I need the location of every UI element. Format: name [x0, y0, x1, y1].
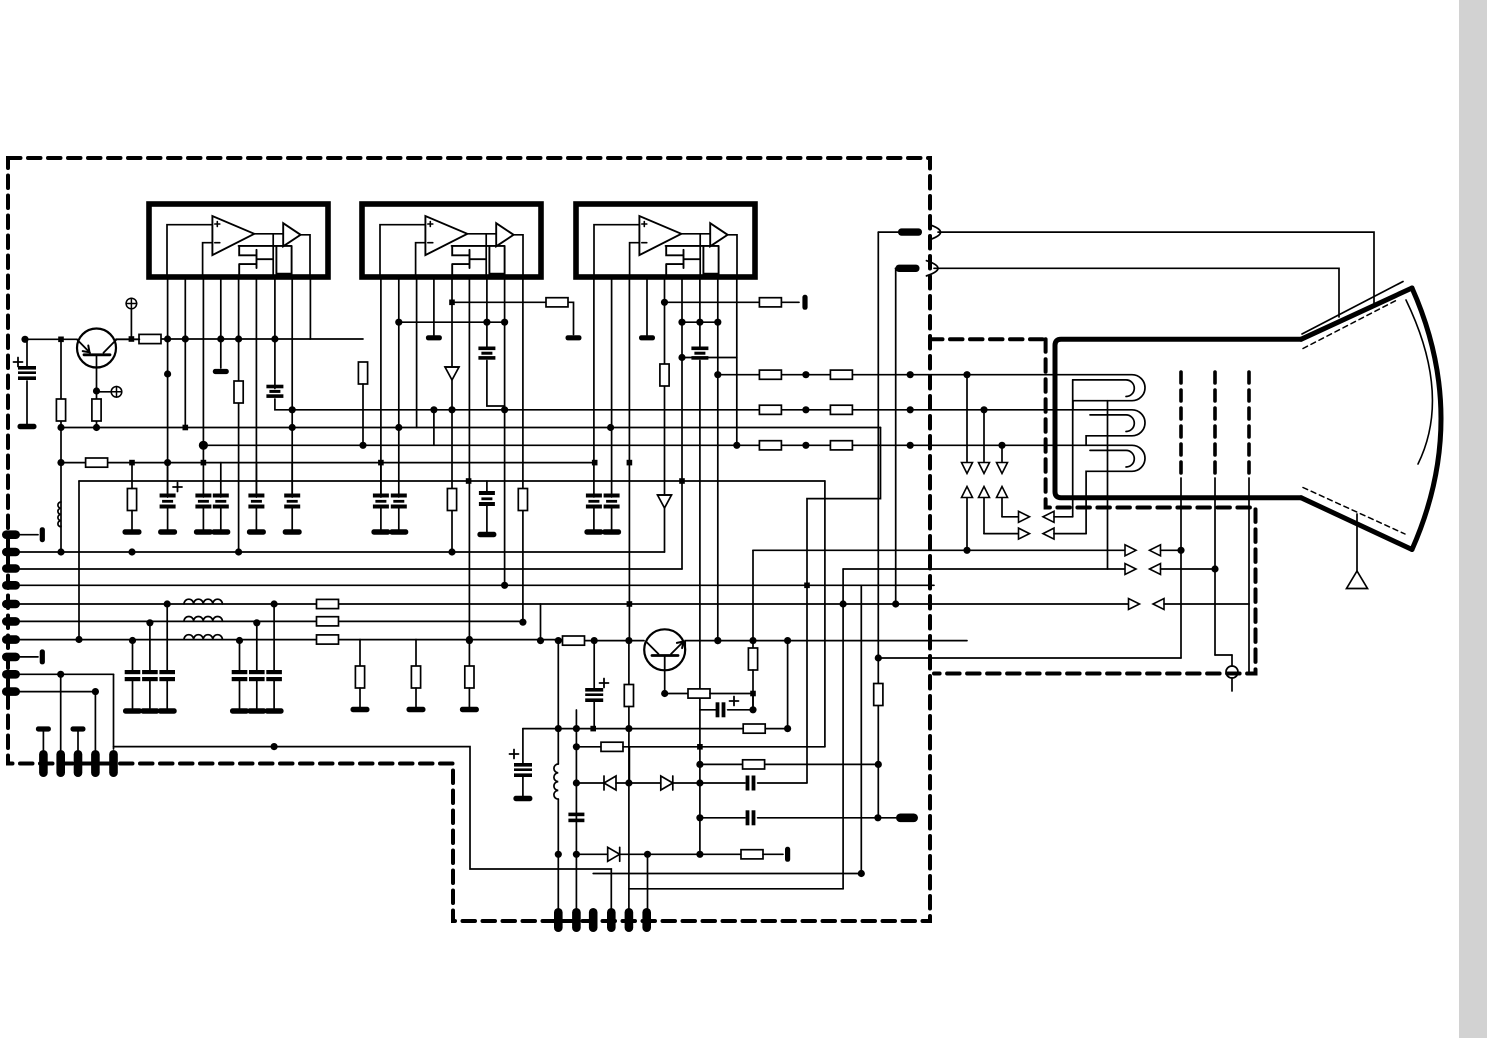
wire P9 drop to pill5	[113, 674, 115, 749]
junction U2 p5 feed	[449, 300, 455, 306]
diode D5	[658, 495, 672, 508]
wire cap C3 top lead	[202, 463, 204, 497]
wire P2 net	[19, 551, 665, 553]
wire diode row seg2	[616, 782, 661, 784]
junction x558/diode row B	[555, 851, 562, 858]
junction R22/P2 net	[448, 548, 455, 555]
CRT tube outline	[1055, 339, 1301, 497]
junction cap row/x878	[874, 814, 881, 821]
wire diode row seg3	[673, 782, 745, 784]
connector pin P2	[2, 548, 20, 557]
junction row D/gun2	[1211, 565, 1218, 572]
wire U3 pin3 drop	[628, 277, 630, 641]
capacitor C58	[746, 776, 756, 791]
connector arrow G up	[979, 487, 990, 498]
ground cluster B x239	[230, 708, 249, 713]
capacitor cluster B x256	[249, 670, 265, 681]
wire U2 pin3 drop	[416, 277, 418, 428]
wire U1 pin5 drop	[238, 277, 240, 552]
junction L1 end	[57, 548, 64, 555]
resistor R45	[830, 405, 852, 414]
wire cluster A bot x132	[132, 681, 134, 708]
wire cap C2 top lead	[167, 463, 169, 497]
op-amp IC module U3 thick box	[576, 204, 755, 277]
junction U1 p1	[164, 370, 171, 377]
capacitor cluster B x274	[266, 670, 282, 681]
resistor R11	[355, 666, 364, 688]
capacitor C7	[373, 494, 389, 509]
ground C4	[211, 529, 230, 534]
connector arrow C in	[1150, 545, 1161, 556]
junction y764 right	[875, 761, 882, 768]
wire bus C y462	[61, 462, 595, 464]
wire diode row B seg2	[620, 853, 741, 855]
junction P7 a	[466, 636, 473, 643]
wire P4 net	[19, 584, 934, 586]
junction P5/x895	[892, 600, 899, 607]
junction bus D b	[679, 478, 685, 484]
inductor L5	[554, 764, 558, 799]
resistor R60	[874, 684, 883, 706]
wire y747 row left	[576, 746, 601, 748]
wire B60 riser	[60, 674, 62, 750]
junction bottom loop	[271, 743, 278, 750]
connector arrow R up	[962, 487, 973, 498]
junction P2 a	[128, 548, 135, 555]
junction U3 p6 rail	[678, 319, 685, 326]
wire U1 output to buffer	[254, 233, 283, 235]
ground battery	[18, 424, 37, 429]
wire gun1 solid	[1180, 478, 1182, 550]
capacitor C52 electrolytic	[716, 702, 726, 717]
resistor R51	[688, 689, 710, 698]
junction x61/bus A	[57, 424, 64, 431]
wire cap C6 bottom lead	[291, 506, 293, 531]
wire C50 bottom lead	[593, 702, 595, 729]
wire cap C6 top lead	[291, 463, 293, 497]
junction U2 p6 end	[466, 637, 473, 644]
junction P5 branch/Q2 base	[537, 637, 544, 644]
wire x878 long vertical	[877, 232, 879, 818]
wire gun1 lower	[1180, 550, 1182, 658]
wire cap C7 top lead	[380, 463, 382, 497]
connector arrow D in	[1150, 564, 1161, 575]
wire cap C3 bottom lead	[202, 506, 204, 531]
capacitor C4	[213, 494, 229, 509]
ground C6	[283, 529, 302, 534]
ground cluster B x256	[247, 708, 266, 713]
junction RGB2 b	[907, 406, 914, 413]
wire cluster A lead x132	[132, 641, 134, 671]
wire C52 right lead	[728, 709, 753, 711]
connector plug J2	[896, 265, 920, 272]
wire RGB2 line / yoke loop 2	[292, 410, 1145, 446]
resistor R1	[56, 399, 65, 421]
wire y658 row	[878, 657, 1181, 659]
junction p7 end	[696, 851, 703, 858]
diode D7	[604, 776, 616, 790]
connector pin P10	[2, 687, 20, 696]
resistor R2	[92, 399, 101, 421]
wire x895 long vertical	[895, 268, 897, 604]
ground electrode circle	[1226, 666, 1238, 678]
wire U2 pin8 drop	[504, 277, 506, 585]
resistor R4	[127, 489, 136, 511]
wire cap C31 bottom lead	[611, 506, 613, 531]
junction U3 p5 feed	[661, 299, 668, 306]
wire U2 pin6 drop	[468, 277, 470, 641]
resistor R44	[830, 370, 852, 379]
wire x825 riser	[824, 481, 826, 747]
junction U1 p2 bus	[183, 425, 189, 431]
ground C8	[389, 529, 408, 534]
wire cluster B bot x274	[273, 681, 275, 708]
wire RGB1 line / yoke loop 1	[718, 375, 1145, 410]
junction U3 p3/bus C	[627, 460, 633, 466]
wire U2 buffer output	[514, 235, 523, 277]
wire test point TP1 lead	[130, 309, 132, 339]
junction D3/RGB2	[448, 406, 455, 413]
junction U1 p5 end	[235, 548, 242, 555]
wire row B out	[1054, 533, 1086, 535]
wire U3 buffer output	[728, 235, 737, 277]
junction U1 p4 rail	[217, 335, 224, 342]
wire gun2 lower	[1214, 569, 1216, 655]
junction U3 p6 end	[678, 354, 685, 361]
junction bus C end	[592, 460, 598, 466]
connector pin Q611	[607, 908, 616, 932]
wire U1 pin9 drop	[310, 277, 363, 339]
wire cluster A bot x167	[166, 681, 168, 708]
junction P4 drop/pill3 net	[858, 870, 865, 877]
wire battery leads	[26, 339, 28, 424]
wire R51 to C52	[710, 694, 753, 710]
wire U3 pin8 drop	[717, 277, 719, 641]
resistor R14	[234, 381, 243, 403]
wire R13 bot lead	[468, 688, 470, 707]
connector arrow C out	[1125, 545, 1136, 556]
wire x843 riser	[842, 569, 844, 889]
wire R52 to bottom pill	[628, 707, 630, 910]
connector pin P3	[2, 564, 20, 573]
wire U3 output to buffer	[681, 233, 710, 235]
wire row A out	[1054, 516, 1073, 518]
wire Q1 base feed	[25, 338, 77, 340]
wire cap row seg1	[700, 817, 745, 819]
capacitor C59	[746, 810, 756, 825]
wire R56 corner drop	[628, 747, 630, 783]
wire U3 pin5 drop	[664, 277, 666, 552]
junction U1 p3	[201, 460, 207, 466]
junction rail feed	[129, 336, 135, 342]
wire U1 pin3 drop	[202, 277, 204, 463]
junction P9/pill2 riser	[57, 671, 64, 678]
wire Q2 collector	[685, 641, 967, 650]
connector pin Q628	[625, 908, 634, 932]
junction R16/RGB3	[359, 442, 366, 449]
junction U1 p2 rail	[182, 335, 189, 342]
junction cluster B x274	[271, 600, 278, 607]
terminal bar U2 p4	[426, 335, 442, 340]
wire R31 to terminal	[782, 301, 800, 303]
wire cap C9 bottom lead	[486, 506, 488, 532]
junction R2/bus	[93, 424, 100, 431]
capacitor C3	[195, 494, 211, 509]
terminal bar U3 p4	[639, 335, 655, 340]
connector arrow B down	[997, 463, 1008, 474]
ground C31	[602, 529, 621, 534]
wire cap C5 bottom lead	[255, 506, 257, 531]
wire row D out	[1161, 568, 1216, 570]
junction x576/y747	[573, 743, 580, 750]
wire cap C4 bottom lead	[220, 506, 222, 531]
resistor R58	[743, 760, 765, 769]
wire R53 top lead	[752, 641, 754, 648]
wire U1 inverting input	[203, 243, 213, 277]
wire x576 column	[575, 710, 577, 909]
junction x629/y728	[625, 725, 632, 732]
connector pin Q593	[589, 908, 598, 932]
wire U3 output pin drop	[699, 234, 701, 277]
resistor R46	[830, 441, 852, 450]
connector pin P1	[2, 530, 20, 539]
capacitor C57	[568, 813, 584, 823]
resistor R50	[563, 636, 585, 645]
wire Q1 base lead	[96, 355, 98, 428]
wire U2 inverting input	[416, 243, 426, 277]
junction bus A mid	[607, 424, 614, 431]
transistor Q1	[77, 329, 139, 368]
connector arrow B up	[997, 487, 1008, 498]
CRT envelope double line top	[1302, 282, 1403, 335]
deflection yoke L10 inner windings	[1073, 380, 1135, 467]
wire x79 column	[78, 481, 80, 640]
output stage symbol inside U3	[666, 246, 719, 277]
wire cap C7 bottom lead	[380, 506, 382, 531]
wire cap C30 bottom lead	[593, 506, 595, 531]
resistor R52	[624, 685, 633, 707]
wire J1 right to CRT	[938, 232, 1374, 306]
connector plug J1	[898, 228, 922, 235]
wire cap C8 bottom lead	[398, 506, 400, 531]
wire R13 top lead	[468, 640, 470, 667]
wire U2 pin1 drop	[380, 277, 382, 497]
junction Q2 emitter	[661, 690, 668, 697]
ground C55	[513, 796, 532, 801]
resistor R53	[748, 648, 757, 670]
resistor R8	[317, 635, 339, 644]
wire bus D y481	[79, 480, 825, 482]
inductor L2	[184, 599, 222, 604]
resistor R16	[358, 362, 367, 384]
wire R52 top lead	[628, 641, 630, 685]
ground cluster A x167	[158, 708, 177, 713]
wire U3 pin4 drop	[646, 277, 648, 335]
wire J2 right to CRT	[934, 268, 1339, 317]
connector pin B60	[56, 750, 65, 777]
junction x558/y728	[555, 725, 562, 732]
terminal bar R20	[566, 335, 582, 340]
wire pill3 net right	[593, 873, 861, 875]
wire gun3 lower	[1248, 604, 1250, 674]
wire CRT anode lead	[1356, 514, 1358, 571]
right gray band	[1459, 0, 1487, 1038]
junction U3 p7 rail	[696, 319, 703, 326]
connector pin P7	[2, 635, 20, 644]
resistor R10	[139, 334, 161, 343]
capacitor C1 electrolytic battery	[18, 366, 36, 380]
wire U2 pin7 drop	[487, 277, 505, 410]
test point TP2	[111, 387, 122, 398]
plus sign C55	[510, 750, 519, 759]
capacitor C9	[479, 491, 495, 506]
connector arrow G down	[979, 463, 990, 474]
wire U3 pin2 drop	[611, 277, 613, 497]
junction RGB3 b	[907, 442, 914, 449]
wire diode row seg1	[576, 782, 604, 784]
wire U3 pin1 drop	[593, 277, 595, 497]
diode D3	[445, 367, 459, 380]
wire U3 p6 to p9	[682, 357, 737, 359]
wire R12 bot lead	[415, 688, 417, 707]
wire cluster A bot x149	[149, 681, 151, 708]
capacitor cluster A x167	[159, 670, 175, 681]
ground cluster B x274	[265, 708, 284, 713]
junction bus D a	[466, 478, 472, 484]
junction RGB2 stub	[430, 406, 437, 413]
wire row A feed	[1002, 516, 1019, 518]
wire Q2 emitter	[664, 670, 666, 693]
wire U1 pin6 drop	[255, 277, 257, 497]
junction U2 p8 rail	[501, 319, 508, 326]
wire cap C2 bottom lead	[167, 506, 169, 531]
junction C50 top	[591, 637, 598, 644]
wire diode row seg4	[758, 782, 807, 784]
junction U3 p8 end	[714, 637, 721, 644]
wire U1 pin2 drop	[184, 277, 186, 428]
junction p7/y747 row	[697, 744, 703, 750]
CRT faceplate inner arc	[1406, 300, 1432, 464]
wire U1 pin4 drop	[220, 277, 222, 368]
junction RGB2 drop	[980, 406, 987, 413]
wire y728 row	[523, 728, 788, 730]
wire diode row B seg1	[576, 853, 607, 855]
connector pin B78	[74, 750, 83, 777]
junction row C/gun1	[1177, 547, 1184, 554]
wire U1 Vcc rail	[139, 338, 310, 340]
wire bus A step down	[807, 428, 881, 783]
wire J1 left	[878, 231, 898, 233]
op-amp U1A triangle	[212, 216, 254, 255]
wire P6 net	[19, 620, 523, 622]
junction y728 end	[784, 725, 791, 732]
connector arrow B in	[1043, 528, 1054, 539]
wire P8 stub	[19, 656, 38, 658]
wire U3 Vcc rail	[682, 321, 718, 323]
outer dashed border of main PCB block	[8, 158, 930, 921]
anode terminal triangle	[1347, 571, 1368, 589]
ground R13	[460, 707, 479, 712]
junction U2 p8 end	[501, 582, 508, 589]
resistor R6	[317, 599, 339, 608]
capacitor C2	[160, 494, 176, 509]
test point TP1	[126, 298, 137, 309]
connector pin P9	[2, 670, 20, 679]
wire U2 non-inverting input	[380, 225, 425, 277]
junction row C/drop R	[963, 547, 970, 554]
wire C55 bottom lead	[522, 777, 524, 796]
wire cap row seg2	[758, 817, 896, 819]
junction x576/diode row B	[573, 851, 580, 858]
wire P5 net (to CRT connector)	[19, 603, 1129, 605]
wire P7 net / Q2 base wire left	[19, 639, 562, 641]
wire pad	[561, 640, 563, 642]
connector arrow A in	[1043, 511, 1054, 522]
junction battery top	[21, 336, 28, 343]
wire R53 bottom lead	[752, 670, 754, 710]
wire RGB3 line / yoke loop 3	[203, 445, 1145, 533]
terminal bar B43	[36, 726, 51, 731]
junction U1 p1 bus	[164, 459, 171, 466]
junction cluster B x256	[253, 619, 260, 626]
wire R57 to terminal	[763, 853, 783, 855]
ground R11	[351, 707, 370, 712]
junction y728 b	[590, 726, 596, 732]
resistor R7	[317, 617, 339, 626]
wire x787 riser	[787, 641, 789, 729]
junction U2 p7/p8	[501, 406, 508, 413]
wire gun2 dashed inside tube	[1213, 372, 1217, 478]
wire y747 row right	[623, 746, 825, 748]
ground C7	[371, 529, 390, 534]
resistor R3	[86, 458, 108, 467]
wire row C riser	[752, 550, 754, 640]
node RGB2 source	[289, 406, 296, 413]
wire R16 lower lead	[362, 384, 364, 445]
diode D9	[608, 847, 620, 861]
junction RGB3 a	[802, 442, 809, 449]
wire cluster A lead x149	[149, 623, 151, 670]
capacitor C6	[284, 494, 300, 509]
resistor R31	[759, 298, 781, 307]
ground C2	[158, 529, 177, 534]
node RGB3 source	[199, 441, 208, 450]
node RGB1 source	[714, 371, 721, 378]
junction U3 p8 rail	[714, 319, 721, 326]
op-amp U2A triangle	[425, 216, 467, 255]
junction Q2 coll/R53	[749, 637, 756, 644]
wire row B feed	[984, 533, 1019, 535]
wire CRT drop R	[966, 375, 968, 551]
wire P9 net	[19, 673, 114, 675]
junction x843/P5 net	[840, 600, 847, 607]
junction U3 p3/P5 net	[627, 601, 633, 607]
junction p7/diode row	[696, 779, 703, 786]
wire gun2 solid	[1214, 478, 1216, 569]
wire U2 p5 feed	[452, 302, 574, 334]
wire gun3 dashed inside tube	[1247, 372, 1251, 478]
capacitor C15	[266, 385, 283, 398]
plus sign battery	[14, 358, 23, 367]
inductor L3	[184, 616, 222, 621]
junction U2 p7 rail	[483, 319, 490, 326]
wire C8 upper feed	[398, 428, 400, 463]
junction U2 p2 bus	[395, 424, 402, 431]
connector pin P8	[2, 653, 20, 662]
junction RGB2 a	[802, 406, 809, 413]
wire U2 pin2 drop	[398, 277, 400, 428]
junction y728 a	[573, 725, 580, 732]
